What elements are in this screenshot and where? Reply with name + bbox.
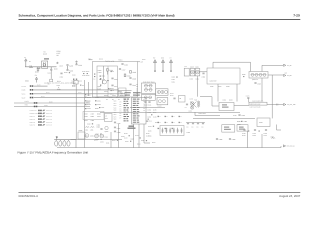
svg-text:SCLK: SCLK: [22, 93, 26, 95]
filter section box outline: [83, 112, 104, 120]
svg-text:R376: R376: [146, 133, 149, 135]
svg-text:R316: R316: [110, 88, 114, 90]
svg-text:C382: C382: [237, 124, 241, 126]
svg-text:C431: C431: [101, 107, 104, 109]
svg-text:R427: R427: [152, 142, 155, 144]
svg-text:P6: P6: [120, 115, 122, 117]
svg-text:FL2: FL2: [185, 66, 187, 68]
svg-text:C331: C331: [97, 100, 101, 102]
svg-text:5V: 5V: [24, 57, 26, 59]
svg-text:C317: C317: [122, 69, 126, 71]
component row 2: [158, 122, 182, 124]
svg-text:R302: R302: [98, 70, 102, 72]
capacitor C363: [202, 73, 206, 78]
matching box FL311: [237, 125, 248, 131]
svg-text:C370: C370: [190, 98, 193, 100]
capacitor C310 column: [129, 84, 136, 86]
svg-text:C307: C307: [114, 86, 118, 88]
cluster R415 right of IC: [148, 130, 151, 132]
buffer box U310: [219, 103, 234, 111]
pin name column outside U201: [124, 99, 129, 122]
text D303 net: [104, 95, 124, 97]
text R302 C303: [94, 70, 102, 80]
svg-text:C306: C306: [114, 79, 118, 81]
wire vertical x218: [217, 84, 219, 102]
cluster C410 bottom center: [96, 139, 102, 141]
svg-text:C319: C319: [112, 95, 116, 97]
footer document number: [19, 195, 39, 198]
svg-text:7-29: 7-29: [293, 13, 300, 17]
svg-text:R314: R314: [102, 75, 106, 77]
crystal filter box FL302: [157, 98, 168, 107]
varactor pair CR310: [144, 84, 152, 87]
capacitor C315 inside VCO: [100, 79, 106, 81]
svg-text:Q330: Q330: [105, 131, 109, 133]
capacitor C320 below resonator: [144, 102, 151, 106]
footer date: [279, 195, 300, 198]
pin labels left of resonator: [136, 84, 138, 97]
resistor R318 inside VCO: [124, 74, 130, 77]
svg-text:N2X: N2X: [114, 105, 117, 107]
svg-text:R345: R345: [97, 126, 101, 128]
cluster C414 right of IC: [148, 126, 154, 128]
svg-text:C: C: [181, 116, 182, 118]
svg-text:C230: C230: [78, 65, 82, 67]
svg-text:C394: C394: [264, 133, 267, 135]
svg-text:R3: R3: [112, 71, 114, 73]
cluster C356 R357 right of U201: [148, 112, 157, 115]
svg-text:C320 C321: C320 C321: [144, 104, 151, 106]
matching box FL310: [222, 125, 235, 132]
svg-text:9V3: 9V3: [285, 72, 288, 74]
svg-text:C380: C380: [187, 132, 190, 134]
resistor R221: [29, 66, 33, 68]
pin name column inside U201: [133, 99, 140, 123]
svg-text:C410: C410: [96, 139, 99, 141]
svg-text:TX_INJ_136: TX_INJ_136: [287, 104, 295, 106]
svg-text:R: R: [160, 122, 161, 124]
svg-text:R342: R342: [84, 120, 88, 122]
svg-text:C3: C3: [118, 99, 120, 101]
osc area cluster C234: [72, 79, 78, 88]
mixer hatch detail: [191, 102, 197, 108]
svg-text:R241: R241: [46, 92, 49, 94]
wire vertical x133 from U201: [133, 124, 135, 148]
svg-text:R415: R415: [148, 130, 151, 132]
wire row TRB control: [14, 104, 90, 107]
svg-text:C432: C432: [148, 121, 151, 123]
svg-text:U320: U320: [259, 122, 263, 124]
svg-text:C337: C337: [91, 113, 95, 115]
svg-text:N5X: N5X: [114, 112, 117, 114]
svg-text:R308: R308: [132, 72, 136, 74]
svg-text:5V_RF: 5V_RF: [287, 75, 292, 77]
cluster C358 R359 right of U201: [148, 116, 157, 119]
wire buffer to box: [200, 71, 207, 73]
signal row 3_SYN_CS with resistor R251: [30, 110, 52, 112]
wire RX INJ riser: [277, 125, 282, 131]
wire array output: [268, 74, 283, 76]
svg-text:C374: C374: [135, 135, 138, 137]
svg-text:R429: R429: [116, 97, 119, 99]
cluster R380 C381: [237, 121, 247, 126]
cluster C390 R391: [242, 130, 249, 137]
testpoint M251: [55, 140, 58, 146]
cluster C236 R237: [82, 71, 89, 77]
svg-text:R423: R423: [112, 140, 115, 142]
wire vertical x111: [110, 132, 112, 148]
svg-text:C356: C356: [148, 112, 151, 114]
svg-text:C373: C373: [246, 95, 249, 97]
resistor R304: [107, 69, 113, 75]
text top band C417: [142, 59, 145, 61]
resistor R314 inside VCO: [100, 75, 106, 77]
capacitor C230: [75, 63, 82, 67]
svg-text:C344: C344: [97, 124, 101, 126]
svg-text:R256 1K: R256 1K: [46, 124, 52, 126]
wire top control run: [213, 62, 251, 71]
wire vertical x139 from U201: [138, 124, 140, 148]
wire main bus y112: [100, 111, 240, 113]
text VCO label: [105, 60, 114, 62]
cluster C412 bottom center: [125, 141, 131, 143]
svg-text:R254 1K: R254 1K: [46, 119, 52, 121]
svg-text:C3: C3: [187, 126, 189, 128]
svg-text:11: 11: [143, 99, 145, 101]
svg-text:R245: R245: [49, 101, 53, 103]
svg-text:R391: R391: [242, 135, 245, 137]
svg-text:R: R: [174, 122, 175, 124]
wire oscillator output: [25, 66, 57, 68]
svg-text:U301: U301: [189, 110, 192, 112]
svg-text:C3: C3: [202, 126, 204, 128]
capacitor C223: [48, 67, 53, 85]
svg-text:LOCK: LOCK: [25, 101, 29, 103]
text above LPF: [252, 100, 263, 102]
svg-text:5V: 5V: [35, 75, 37, 77]
svg-text:R332: R332: [87, 104, 91, 106]
cluster C424 fill: [121, 136, 124, 138]
capacitor C301: [121, 64, 128, 67]
net label right of VCO box: [138, 61, 144, 63]
capacitor C240: [60, 73, 64, 78]
text row left bottom: [84, 135, 94, 137]
cluster R427 fill: [152, 142, 155, 144]
svg-text:P4: P4: [136, 90, 138, 92]
svg-text:C390: C390: [242, 133, 245, 135]
svg-text:C312: C312: [99, 58, 103, 60]
off-page arrow 9V3: [284, 72, 292, 76]
capacitor C309 column: [129, 78, 136, 81]
wire row y139: [71, 139, 123, 141]
svg-text:C385: C385: [219, 139, 223, 141]
svg-text:R231: R231: [57, 81, 61, 83]
series capacitor chain: [186, 123, 205, 128]
svg-text:C3: C3: [192, 126, 194, 128]
text below divider box: [210, 86, 229, 88]
wire IF path y118: [193, 117, 255, 119]
svg-text:NU: NU: [57, 55, 59, 57]
svg-text:TXM: TXM: [29, 65, 32, 67]
svg-text:C341: C341: [172, 79, 175, 81]
svg-text:9V3: 9V3: [161, 57, 164, 59]
svg-text:3 AUX 1: 3 AUX 1: [30, 116, 36, 118]
svg-text:C424: C424: [121, 136, 124, 138]
svg-text:T301: T301: [194, 99, 197, 101]
svg-text:L395: L395: [264, 135, 267, 137]
svg-text:R235: R235: [72, 85, 76, 87]
cluster R411 bottom center: [106, 142, 109, 144]
text above VCO box: [89, 58, 123, 61]
text below buffers: [190, 78, 199, 80]
svg-text:R372: R372: [170, 95, 173, 97]
header page number: [293, 13, 300, 17]
inner bias box: [119, 88, 127, 96]
svg-text:C414: C414: [148, 126, 151, 128]
svg-text:N8X: N8X: [114, 118, 117, 120]
svg-text:C363: C363: [202, 76, 206, 78]
svg-text:C3: C3: [112, 90, 114, 92]
svg-text:C403: C403: [223, 99, 226, 101]
svg-text:Q341: Q341: [195, 66, 199, 68]
svg-text:C303: C303: [98, 72, 102, 74]
svg-text:C354: C354: [148, 109, 151, 111]
svg-text:Q220 SF: Q220 SF: [252, 79, 258, 81]
varactor D301 cluster: [104, 91, 123, 95]
supply arrow 5V VCO: [153, 57, 156, 72]
svg-text:U210 DIV: U210 DIV: [210, 80, 217, 82]
supply arrow V1 5V: [24, 57, 31, 67]
svg-text:C226: C226: [43, 53, 47, 55]
component group K1: [216, 139, 222, 141]
cluster C392 R393: [253, 130, 260, 137]
crystal filter box FL301: [156, 89, 168, 96]
svg-text:R338: R338: [97, 113, 101, 115]
svg-text:R357: R357: [153, 112, 156, 114]
svg-text:3 AUX 3: 3 AUX 3: [30, 122, 36, 124]
wire connector top rail: [54, 139, 76, 141]
resistor R222: [35, 67, 39, 73]
ground at C230: [75, 61, 77, 63]
svg-text:August 24, 2007: August 24, 2007: [279, 195, 300, 198]
svg-text:P3: P3: [136, 88, 138, 90]
svg-text:C381: C381: [244, 121, 248, 123]
svg-text:N0X: N0X: [114, 100, 117, 102]
cluster C420 fill: [87, 123, 93, 125]
svg-text:C238 R239: C238 R239: [82, 75, 89, 77]
cluster mid bottom R370: [124, 133, 130, 139]
wire bus SPI DATA: [22, 96, 131, 99]
small box FL220: [184, 66, 189, 76]
svg-text:C416: C416: [148, 135, 151, 137]
svg-text:R404: R404: [229, 99, 232, 101]
testpoint M254: [67, 140, 70, 146]
svg-text:C372: C372: [124, 137, 127, 139]
text under mixer: [199, 113, 206, 115]
svg-text:C420: C420: [87, 123, 90, 125]
svg-text:C314 C315 C316: C314 C315 C316: [250, 106, 261, 108]
resistor R308 column: [130, 71, 136, 74]
cluster mid bottom C374: [135, 135, 141, 139]
transistor Q301: [98, 78, 109, 90]
svg-text:C383: C383: [233, 115, 236, 117]
svg-text:R405: R405: [242, 74, 245, 76]
signal row 3_MOD_OUT with resistor R252: [30, 113, 52, 115]
svg-text:C: C: [167, 116, 168, 118]
footer rule: [19, 191, 301, 194]
svg-text:R430: R430: [87, 94, 90, 96]
svg-text:C32B: C32B: [95, 97, 99, 99]
svg-text:C6: C6: [82, 85, 84, 87]
resonator shield box RX: [141, 95, 155, 101]
svg-text:R355: R355: [153, 109, 156, 111]
svg-text:16: 16: [143, 110, 145, 112]
svg-text:R305: R305: [98, 88, 101, 90]
svg-text:R323: R323: [151, 81, 154, 83]
testpoint M252: [59, 140, 62, 146]
osc area cluster R235: [72, 85, 84, 87]
svg-text:C419: C419: [72, 74, 75, 76]
signal row 3_AUX_4 with resistor R256: [30, 124, 52, 126]
wire vertical x118: [118, 124, 120, 148]
cluster right of FL301: [170, 93, 176, 99]
svg-text:P5: P5: [120, 113, 122, 115]
wire vertical x262 down: [261, 78, 263, 102]
wire vertical x247: [246, 131, 248, 148]
svg-text:C: C: [167, 128, 168, 130]
svg-text:C240: C240: [60, 76, 64, 78]
cluster C422 fill: [105, 136, 108, 138]
wire array down to TX path: [271, 75, 273, 118]
wire vertical x237: [236, 84, 238, 102]
cluster Q330: [105, 126, 109, 132]
svg-text:R411: R411: [106, 142, 109, 144]
svg-text:C343: C343: [91, 120, 95, 122]
svg-text:C417: C417: [142, 59, 145, 61]
text row below VCO box: [106, 99, 126, 101]
svg-text:C223: C223: [48, 72, 51, 74]
cluster C432 fill right: [147, 121, 152, 123]
svg-text:C225: C225: [59, 65, 63, 67]
VCO outer shield box: [93, 62, 138, 98]
svg-text:L330: L330: [85, 129, 88, 131]
transformer T301: [194, 99, 200, 107]
svg-text:6816532H01-A: 6816532H01-A: [19, 195, 39, 198]
svg-text:R243: R243: [41, 96, 44, 98]
svg-text:U3: U3: [179, 98, 181, 100]
svg-text:R252 1K: R252 1K: [46, 113, 52, 115]
svg-text:C333: C333: [97, 104, 101, 106]
text R226 label: [57, 51, 61, 57]
svg-text:L224: L224: [57, 85, 60, 87]
wire VCO internal: [103, 66, 105, 79]
resistor row R331b: [85, 97, 99, 99]
U201 part number text: [128, 126, 136, 129]
cluster R387: [271, 136, 276, 138]
wire TX INJ: [234, 104, 283, 106]
buffer can Q341: [195, 66, 200, 76]
cluster R413 bottom center: [137, 143, 140, 145]
mixer cluster U301: [189, 98, 195, 112]
cluster R433 fill right: [155, 122, 158, 124]
capacitor row C334: [85, 108, 99, 110]
svg-text:C422: C422: [105, 136, 108, 138]
capacitor C228: [37, 68, 41, 69]
capacitor C373 above: [246, 95, 250, 102]
TX low pass filter box: [249, 102, 267, 105]
svg-text:TRB: TRB: [25, 104, 28, 106]
svg-text:MOD: MOD: [25, 80, 29, 82]
ground arrow at connector: [56, 136, 58, 140]
svg-text:R: R: [167, 122, 168, 124]
signal row 3_AUX_1 with resistor R253: [30, 116, 52, 118]
svg-text:D301: D301: [104, 91, 108, 93]
header rule: [19, 19, 301, 20]
svg-text:C246: C246: [44, 105, 48, 107]
capacitor C307: [111, 85, 118, 92]
transistor can Q331: [94, 134, 98, 141]
svg-text:R3: R3: [124, 99, 126, 101]
svg-text:R222: R222: [35, 71, 39, 73]
wire row LOCK detect: [14, 101, 90, 104]
svg-text:3 SYN CS: 3 SYN CS: [30, 110, 37, 112]
svg-text:R225: R225: [54, 68, 58, 70]
pin numbers right of U201: [143, 99, 145, 112]
net stub 16.8MHZ OUT: [29, 67, 33, 69]
wire bus 16.8MHz: [22, 89, 119, 91]
svg-text:5V: 5V: [44, 51, 46, 53]
amp box U302: [179, 96, 186, 103]
svg-text:15: 15: [143, 108, 145, 110]
buffer can Q340: [190, 66, 195, 76]
crystal Y201 16.8MHz: [42, 58, 50, 68]
svg-text:C4: C4: [185, 107, 187, 109]
svg-text:14: 14: [143, 105, 145, 107]
varactor pair CR312: [144, 96, 152, 99]
svg-text:C3: C3: [106, 99, 108, 101]
text under LPF: [250, 106, 261, 108]
svg-text:R401 C402: R401 C402: [199, 113, 206, 115]
varactor pair CR311: [144, 88, 152, 91]
svg-text:R253 1K: R253 1K: [46, 116, 52, 118]
svg-text:Schematics, Component Location: Schematics, Component Location Diagrams,…: [19, 14, 175, 17]
text column x113: [114, 100, 117, 120]
svg-text:D303: D303: [104, 95, 108, 97]
label C247 on bus: [86, 101, 89, 103]
off-page arrow TX INJ: [284, 103, 296, 105]
inductor L330: [85, 127, 90, 131]
off-page arrow 5V SF: [284, 64, 292, 66]
svg-text:5V RF: 5V RF: [22, 86, 26, 88]
svg-text:C341: C341: [97, 116, 101, 118]
svg-text:LF: LF: [105, 115, 107, 117]
svg-text:C352: C352: [100, 141, 104, 143]
cluster R425 fill: [131, 138, 134, 140]
cluster C431 fill left: [99, 107, 104, 109]
svg-text:R226: R226: [57, 51, 61, 53]
wire synth mid horizontal: [130, 106, 165, 108]
cluster R423 fill: [112, 140, 118, 142]
svg-text:R380: R380: [237, 121, 241, 123]
svg-text:C408: C408: [226, 86, 229, 88]
svg-text:3 AUX 4: 3 AUX 4: [30, 124, 36, 126]
svg-text:R342: R342: [172, 81, 175, 83]
svg-text:R421: R421: [96, 133, 99, 135]
svg-text:C406: C406: [210, 86, 213, 88]
cluster C416 right of IC: [148, 135, 151, 137]
svg-text:R433: R433: [155, 122, 158, 124]
resistor row R330: [85, 100, 101, 102]
